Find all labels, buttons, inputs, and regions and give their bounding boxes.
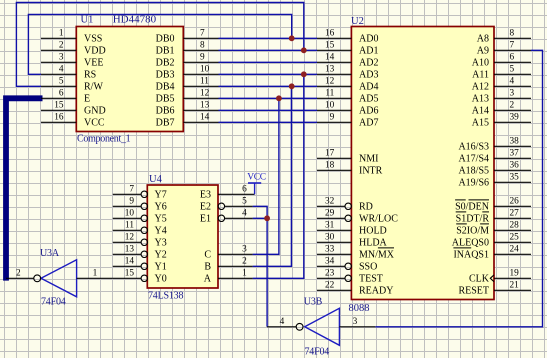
svg-text:ALEQS0: ALEQS0 [452, 238, 489, 249]
junction J2 [301, 47, 307, 53]
svg-text:35: 35 [510, 173, 520, 183]
pin U4.10 Y5 [113, 209, 167, 225]
svg-text:13: 13 [200, 101, 210, 111]
wire U1.E to U3A output (thick bus) [6, 98, 43, 280]
svg-text:A14: A14 [472, 106, 489, 117]
IC U2 8088 CPU body [351, 27, 494, 300]
svg-text:Y2: Y2 [155, 250, 167, 261]
svg-text:28: 28 [510, 221, 520, 231]
svg-text:INAQS1: INAQS1 [453, 250, 489, 261]
pin U2.17 NMI [317, 149, 378, 165]
svg-text:34: 34 [325, 257, 335, 267]
pin U1.14 DB7 [156, 113, 219, 129]
pin U2.39 A15 [472, 113, 531, 129]
IC U1 HD44780 LCD controller body [76, 27, 183, 132]
pin U2.18 INTR [317, 161, 383, 177]
svg-text:RS: RS [84, 70, 96, 81]
pin U4.7 Y7 [113, 185, 167, 201]
pin U2.34 SSO [317, 257, 377, 273]
svg-text:15: 15 [125, 269, 135, 279]
svg-text:A12: A12 [472, 82, 489, 93]
pin U2.38 A16/S3 [458, 137, 531, 153]
pin U2.22 READY [317, 281, 393, 297]
svg-text:22: 22 [325, 281, 335, 291]
svg-text:SSO: SSO [359, 262, 377, 273]
svg-text:U1: U1 [81, 15, 94, 26]
svg-text:A8: A8 [477, 34, 489, 45]
svg-text:A19/S6: A19/S6 [458, 178, 489, 189]
svg-text:U2: U2 [351, 16, 364, 27]
svg-text:Y5: Y5 [155, 214, 167, 225]
svg-text:Y6: Y6 [155, 202, 167, 213]
pin U2.9 AD7 [317, 113, 378, 129]
svg-text:A13: A13 [472, 94, 489, 105]
svg-text:A16/S3: A16/S3 [458, 142, 489, 153]
power VCC symbol [247, 173, 265, 195]
svg-text:12: 12 [125, 233, 135, 243]
svg-text:33: 33 [325, 245, 335, 255]
junction J6 [264, 215, 270, 221]
svg-text:Y3: Y3 [155, 238, 167, 249]
svg-text:A9: A9 [477, 46, 489, 57]
pin U3B.3 input [339, 317, 375, 327]
svg-text:A11: A11 [472, 70, 489, 81]
svg-text:U3A: U3A [40, 248, 60, 259]
pin U1.8 DB1 [156, 41, 219, 57]
pin U4.2 B [204, 257, 252, 273]
svg-text:5: 5 [59, 77, 64, 87]
svg-text:12: 12 [200, 89, 210, 99]
svg-text:4: 4 [510, 77, 515, 87]
svg-text:DB7: DB7 [156, 118, 175, 129]
pin U2.15 AD1 [317, 41, 378, 57]
svg-text:7: 7 [200, 29, 205, 39]
wire U1.RS to U2.AD0 net (top inner) [28, 14, 291, 74]
pin U2.29 WR/LOC [317, 209, 398, 225]
pin U1.1 VSS [41, 29, 102, 45]
pin U3B.4 output [267, 317, 303, 330]
svg-text:29: 29 [325, 209, 335, 219]
svg-text:WR/LOC: WR/LOC [359, 214, 398, 225]
wire DB0 to AD0 [219, 37, 318, 39]
svg-text:AD0: AD0 [359, 34, 378, 45]
pin U2.10 AD6 [317, 101, 378, 117]
pin U4.14 Y1 [113, 257, 167, 273]
pin U1.9 DB2 [156, 53, 219, 69]
pin U4.3 C [204, 245, 252, 261]
pin U2.26 S0/DEN [455, 197, 531, 213]
IC U4 74LS138 decoder body [147, 185, 218, 288]
svg-text:38: 38 [510, 137, 520, 147]
svg-text:CLK: CLK [469, 274, 490, 285]
svg-text:AD7: AD7 [359, 118, 378, 129]
pin U4.15 Y0 [113, 269, 167, 285]
svg-text:3: 3 [242, 245, 247, 255]
pin U3A.2 output [6, 269, 41, 282]
svg-text:14: 14 [325, 53, 335, 63]
svg-text:9: 9 [129, 197, 134, 207]
wire U3B output to U4.E2/E1 [253, 206, 268, 326]
svg-text:S1DT/R: S1DT/R [456, 214, 490, 225]
pin U4.12 Y3 [113, 233, 167, 249]
svg-text:74LS138: 74LS138 [148, 290, 183, 301]
svg-text:DB0: DB0 [156, 34, 175, 45]
wire DB2 to AD2 [219, 61, 318, 63]
svg-text:11: 11 [125, 221, 134, 231]
pin U2.4 A12 [472, 77, 531, 93]
svg-text:25: 25 [510, 233, 520, 243]
svg-text:23: 23 [325, 269, 335, 279]
pin U1.3 VEE [41, 53, 103, 69]
overline DEN [469, 199, 490, 201]
svg-text:21: 21 [510, 281, 520, 291]
svg-text:11: 11 [325, 89, 334, 99]
clock symbol on U2.19 CLK [490, 275, 494, 282]
svg-text:Component_1: Component_1 [77, 134, 131, 145]
svg-text:31: 31 [325, 221, 335, 231]
overline S0 [455, 199, 466, 201]
svg-text:INTR: INTR [359, 166, 383, 177]
svg-text:8: 8 [510, 29, 515, 39]
pin U4.9 Y6 [113, 197, 167, 213]
svg-text:HD44780: HD44780 [113, 14, 157, 26]
pin U1.2 VDD [41, 41, 106, 57]
wire DB1 to AD1 [219, 49, 318, 51]
svg-text:AD2: AD2 [359, 58, 378, 69]
pin U2.24 INAQS1 [453, 245, 531, 261]
pin U2.16 AD0 [317, 29, 378, 45]
svg-text:16: 16 [54, 113, 64, 123]
svg-text:C: C [204, 250, 211, 261]
pin U2.8 A8 [477, 29, 531, 45]
svg-text:A18/S5: A18/S5 [458, 166, 489, 177]
svg-text:NMI: NMI [359, 154, 378, 165]
svg-text:GND: GND [84, 106, 106, 117]
pin U4.13 Y2 [113, 245, 167, 261]
pin U1.6 E [41, 89, 90, 105]
svg-text:24: 24 [510, 245, 520, 255]
svg-text:8: 8 [200, 41, 205, 51]
svg-text:3: 3 [353, 317, 358, 327]
pin U2.7 A9 [477, 41, 531, 57]
pin U2.11 AD5 [317, 89, 378, 105]
wire DB3 to AD3 [219, 73, 318, 75]
svg-text:27: 27 [510, 209, 520, 219]
overline S1 [456, 211, 467, 213]
pin U1.10 DB3 [156, 65, 219, 81]
pin U2.2 A14 [472, 101, 531, 117]
svg-text:VEE: VEE [84, 58, 103, 69]
wire AD5 to U4.C [253, 98, 279, 254]
pin U2.12 AD4 [317, 77, 378, 93]
pin U2.30 HLDA [317, 233, 388, 249]
svg-text:DB3: DB3 [156, 70, 175, 81]
svg-text:12: 12 [325, 77, 335, 87]
svg-text:15: 15 [54, 101, 64, 111]
svg-text:DB4: DB4 [156, 82, 175, 93]
pin U2.5 A11 [472, 65, 531, 81]
svg-text:DB6: DB6 [156, 106, 175, 117]
svg-text:4: 4 [242, 209, 247, 219]
wire U2.A9 to U3B input [375, 50, 542, 327]
overline MX on U2.33 MN/MX [378, 247, 394, 249]
svg-text:4: 4 [280, 317, 285, 327]
inverter U3B 74F04 triangle [305, 308, 340, 345]
svg-text:Y4: Y4 [155, 226, 167, 237]
pin U2.33 MN/MX [317, 245, 395, 261]
svg-text:32: 32 [325, 197, 335, 207]
svg-text:36: 36 [510, 161, 520, 171]
svg-text:74F04: 74F04 [41, 297, 66, 308]
svg-text:37: 37 [510, 149, 520, 159]
pin U2.28 S2IO/M [456, 221, 531, 237]
pin U1.11 DB4 [156, 77, 219, 93]
pin U4.11 Y4 [113, 221, 167, 237]
pin U1.13 DB6 [156, 101, 219, 117]
overline M [480, 223, 489, 225]
svg-text:14: 14 [125, 257, 135, 267]
pin U4.5 E2 [200, 197, 253, 213]
svg-text:Y1: Y1 [155, 262, 167, 273]
pin U1.15 GND [41, 101, 106, 117]
pin U4.6 E3 [200, 185, 255, 201]
svg-text:15: 15 [325, 41, 335, 51]
svg-text:3: 3 [59, 53, 64, 63]
svg-text:VCC: VCC [247, 173, 265, 183]
svg-text:9: 9 [200, 53, 205, 63]
svg-text:MN/MX: MN/MX [359, 250, 395, 261]
svg-text:16: 16 [325, 29, 335, 39]
svg-text:HLDA: HLDA [359, 238, 388, 249]
svg-text:11: 11 [200, 77, 209, 87]
svg-text:E3: E3 [200, 190, 211, 201]
svg-text:B: B [204, 262, 211, 273]
svg-text:Y0: Y0 [155, 274, 167, 285]
svg-text:19: 19 [510, 269, 520, 279]
svg-text:5: 5 [510, 65, 515, 75]
junction J3 [301, 71, 307, 77]
svg-text:U4: U4 [149, 174, 163, 185]
svg-text:26: 26 [510, 197, 520, 207]
svg-text:39: 39 [510, 113, 520, 123]
svg-text:8088: 8088 [349, 303, 370, 314]
svg-text:10: 10 [125, 209, 135, 219]
pin U1.16 VCC [41, 113, 105, 129]
svg-text:1: 1 [242, 269, 247, 279]
junction J1 [289, 35, 295, 41]
pin U2.31 HOLD [317, 221, 387, 237]
svg-text:6: 6 [59, 89, 64, 99]
svg-text:E1: E1 [200, 214, 211, 225]
svg-text:10: 10 [325, 101, 335, 111]
svg-text:1: 1 [59, 29, 64, 39]
svg-text:E2: E2 [200, 202, 211, 213]
svg-text:AD5: AD5 [359, 94, 378, 105]
svg-text:9: 9 [330, 113, 335, 123]
pin U2.19 CLK [469, 269, 531, 285]
svg-text:DB5: DB5 [156, 94, 175, 105]
pin U2.23 TEST [317, 269, 383, 285]
pin U1.7 DB0 [156, 29, 219, 45]
junction J5 [276, 95, 282, 101]
svg-text:Y7: Y7 [155, 190, 167, 201]
pin U2.14 AD2 [317, 53, 378, 69]
wire DB5 to AD5 [219, 97, 318, 99]
overline R [482, 211, 489, 213]
pin U1.12 DB5 [156, 89, 219, 105]
svg-text:U3B: U3B [304, 297, 323, 308]
svg-text:4: 4 [59, 65, 64, 75]
svg-text:AD1: AD1 [359, 46, 378, 57]
pin U2.6 A10 [472, 53, 531, 69]
pin U3A.1 input [77, 269, 113, 279]
svg-text:7: 7 [129, 185, 134, 195]
svg-text:A10: A10 [472, 58, 489, 69]
svg-text:30: 30 [325, 233, 335, 243]
svg-text:RESET: RESET [458, 286, 489, 297]
pin U1.4 RS [41, 65, 96, 81]
pin U2.3 A13 [472, 89, 531, 105]
wire DB6 to AD6 [219, 109, 318, 111]
svg-text:RD: RD [359, 202, 373, 213]
pin U2.21 RESET [458, 281, 531, 297]
svg-text:2: 2 [242, 257, 247, 267]
svg-text:R/W: R/W [84, 82, 103, 93]
svg-text:VCC: VCC [84, 118, 105, 129]
svg-text:1: 1 [93, 269, 98, 279]
wire U1.RW to U2.AD1 net (top outer) [16, 3, 303, 87]
svg-text:VSS: VSS [84, 34, 102, 45]
overline S2 [456, 223, 467, 225]
inverter U3A 74F04 triangle [41, 260, 77, 297]
pin U4.1 A [204, 269, 253, 285]
svg-text:10: 10 [200, 65, 210, 75]
svg-text:2: 2 [16, 269, 21, 279]
svg-text:2: 2 [510, 101, 515, 111]
svg-text:13: 13 [125, 245, 135, 255]
svg-text:A15: A15 [472, 118, 489, 129]
svg-text:13: 13 [325, 65, 335, 75]
wire AD3 to U4.A [253, 74, 304, 278]
pin U2.32 RD [317, 197, 373, 213]
svg-text:18: 18 [325, 161, 335, 171]
wire U4.E1 branch [253, 217, 268, 219]
svg-text:14: 14 [200, 113, 210, 123]
svg-text:DB2: DB2 [156, 58, 175, 69]
svg-text:S2IO/M: S2IO/M [456, 226, 489, 237]
svg-text:AD6: AD6 [359, 106, 378, 117]
svg-text:DB1: DB1 [156, 46, 175, 57]
svg-text:READY: READY [359, 286, 393, 297]
svg-text:6: 6 [242, 185, 247, 195]
svg-text:3: 3 [510, 89, 515, 99]
wire DB4 to AD4 [219, 85, 318, 87]
pin U4.4 E1 [200, 209, 253, 225]
svg-text:5: 5 [242, 197, 247, 207]
pin U2.36 A18/S5 [458, 161, 531, 177]
svg-text:74F04: 74F04 [305, 347, 330, 358]
svg-text:A17/S4: A17/S4 [458, 154, 489, 165]
svg-text:TEST: TEST [359, 274, 383, 285]
svg-text:17: 17 [325, 149, 335, 159]
svg-text:HOLD: HOLD [359, 226, 387, 237]
pin U2.13 AD3 [317, 65, 378, 81]
svg-text:A: A [204, 274, 212, 285]
overline INA [453, 247, 471, 249]
wire AD4 to U4.B [253, 86, 292, 266]
svg-text:AD4: AD4 [359, 82, 378, 93]
pin U1.5 R/W [41, 77, 103, 93]
svg-text:S0/DEN: S0/DEN [455, 202, 489, 213]
svg-text:6: 6 [510, 53, 515, 63]
svg-text:E: E [84, 94, 90, 105]
svg-text:AD3: AD3 [359, 70, 378, 81]
pin U2.25 ALEQS0 [452, 233, 531, 249]
wire DB7 to AD7 [219, 121, 318, 123]
svg-text:VDD: VDD [84, 46, 106, 57]
pin U2.35 A19/S6 [458, 173, 531, 189]
svg-text:7: 7 [510, 41, 515, 51]
junction J4 [289, 83, 295, 89]
pin U2.37 A17/S4 [458, 149, 531, 165]
svg-text:2: 2 [59, 41, 64, 51]
pin U2.27 S1DT/R [456, 209, 531, 225]
